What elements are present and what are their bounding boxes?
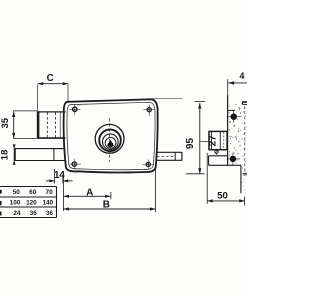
svg-text:36: 36 (30, 210, 38, 217)
housing dashed lines (46, 113, 48, 138)
cylinder axis line (200, 140, 209, 142)
knob bar (right side of body) (156, 152, 182, 161)
dimension A (63, 174, 111, 212)
stipple texture on side view (229, 104, 247, 190)
side screw upper (227, 111, 242, 123)
svg-text:100: 100 (10, 200, 21, 207)
svg-text:B: B (103, 200, 110, 211)
dimension 14 (46, 169, 73, 184)
side view top step (228, 101, 247, 110)
svg-text:50: 50 (13, 189, 21, 196)
table row 1 (13, 189, 53, 196)
svg-text:24: 24 (13, 210, 21, 217)
side dashed centerline (244, 106, 246, 172)
screw hole bottom-right (143, 160, 155, 170)
svg-text:ø: ø (211, 146, 221, 156)
cylinder centerline (dashed) (109, 118, 111, 162)
table rules (0, 187, 57, 218)
side bottom ticks (243, 172, 247, 174)
screw hole bottom-left (70, 159, 82, 169)
side cylinder box (209, 131, 227, 149)
svg-text:4: 4 (240, 71, 245, 81)
dimension 50 (207, 153, 245, 206)
table row 2 (10, 200, 54, 207)
dimension B (63, 169, 155, 213)
dimension C (38, 84, 68, 112)
svg-text:14: 14 (54, 170, 65, 181)
svg-text:70: 70 (46, 189, 54, 196)
side view left edge (227, 96, 229, 166)
svg-text:35: 35 (0, 117, 11, 128)
svg-text:A: A (86, 188, 93, 199)
screw hole top-left (70, 105, 81, 116)
svg-text:140: 140 (42, 200, 53, 207)
dimension 35 (13, 111, 37, 138)
cylinder rings (95, 124, 124, 153)
dimension 18 (13, 147, 15, 163)
svg-text:60: 60 (29, 189, 37, 196)
lock body inner outline (67, 102, 155, 169)
cylinder housing box (37, 112, 66, 139)
dimension 95 (153, 99, 206, 174)
table row 3 (13, 210, 53, 217)
svg-text:18: 18 (0, 150, 10, 161)
table first column clipped glyphs (0, 190, 2, 216)
side screw lower (227, 153, 240, 165)
svg-text:95: 95 (185, 138, 196, 150)
side latch box (209, 156, 241, 166)
keyhole (107, 140, 114, 148)
lock body outer outline (front view) (64, 99, 158, 172)
side lower right edge (240, 165, 242, 193)
screw hole top-right (144, 105, 156, 117)
latch bolt (front view) (15, 148, 65, 161)
svg-text:120: 120 (26, 200, 37, 207)
svg-text:50: 50 (217, 191, 228, 202)
svg-text:C: C (47, 73, 54, 84)
dimension 4 (228, 79, 247, 96)
svg-text:27: 27 (208, 135, 219, 147)
svg-text:36: 36 (46, 210, 54, 217)
